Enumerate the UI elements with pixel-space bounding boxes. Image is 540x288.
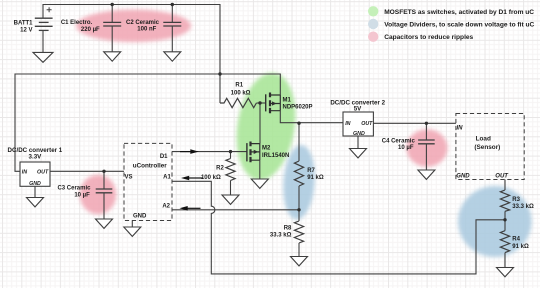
battery BATT1 bbox=[35, 18, 53, 30]
box uController dashed bbox=[124, 143, 172, 220]
wire DCDC2 GND stub bbox=[357, 136, 359, 149]
node R3 R4 junction bbox=[503, 218, 506, 221]
wire C2 top stub bbox=[171, 5, 173, 23]
op transistor M1 NDP6020P p-channel bbox=[266, 93, 281, 114]
resistor R2 bbox=[226, 159, 235, 181]
svg-text:Voltage Dividers, to scale dow: Voltage Dividers, to scale down voltage … bbox=[384, 22, 534, 29]
svg-text:12 V: 12 V bbox=[20, 28, 32, 34]
wire A2 with hop to R7 R8 junction bbox=[172, 209, 299, 211]
capacitor C2 bbox=[163, 22, 181, 26]
ground R8 bbox=[291, 257, 308, 266]
node C2 tap bbox=[171, 3, 174, 6]
svg-text:VS: VS bbox=[125, 175, 133, 181]
wire DCDC2 OUT rail to Load IN bbox=[373, 122, 456, 124]
svg-text:R3: R3 bbox=[512, 197, 520, 203]
svg-text:uController: uController bbox=[133, 163, 167, 170]
wire C4 bottom lead bbox=[425, 144, 427, 170]
wire C1 top stub bbox=[111, 5, 113, 23]
svg-text:220 µF: 220 µF bbox=[81, 27, 100, 33]
svg-text:OUT: OUT bbox=[495, 174, 509, 180]
svg-text:5V: 5V bbox=[354, 106, 362, 113]
wire battery bottom to ground bbox=[42, 31, 44, 53]
transistor M2 IRL1540N n-channel bbox=[247, 142, 260, 163]
svg-text:C2 Ceramic: C2 Ceramic bbox=[126, 20, 160, 26]
node M1 gate junction bbox=[258, 101, 261, 104]
highlight circle: capacitor C4 bbox=[407, 129, 448, 167]
svg-text:IRL1540N: IRL1540N bbox=[262, 153, 289, 159]
svg-text:100 kΩ: 100 kΩ bbox=[201, 175, 221, 181]
arrow D1 signal bbox=[180, 149, 199, 154]
wire A1 long route to R3 R4 junction bbox=[172, 181, 505, 274]
wire vbat left branch to DCDC1 bbox=[15, 74, 220, 171]
capacitor C1 bbox=[103, 22, 121, 26]
wire battery top rail bbox=[43, 5, 220, 75]
svg-text:33.3 kΩ: 33.3 kΩ bbox=[270, 233, 292, 239]
node C3 tap bbox=[102, 170, 105, 173]
svg-text:C1 Electro.: C1 Electro. bbox=[61, 20, 93, 26]
highlight ellipse: capacitors C1 C2 bbox=[76, 10, 191, 42]
svg-text:GND: GND bbox=[133, 214, 147, 220]
svg-text:10 µF: 10 µF bbox=[398, 145, 414, 151]
wire C1 bottom stub bbox=[111, 26, 113, 52]
svg-text:NDP6020P: NDP6020P bbox=[283, 105, 313, 111]
ground C1 bbox=[104, 52, 121, 61]
svg-text:GND: GND bbox=[29, 181, 41, 187]
capacitor C4 bbox=[418, 140, 435, 144]
node R7 top junction bbox=[297, 122, 300, 125]
wire R2 top lead bbox=[230, 152, 232, 159]
wire C4 top lead bbox=[425, 123, 427, 140]
wire gate node down to M2 drain bbox=[259, 103, 261, 144]
ground uController bbox=[124, 227, 141, 236]
legend swatch green bbox=[368, 6, 378, 16]
svg-text:IN: IN bbox=[22, 169, 27, 175]
wire C2 bottom stub bbox=[171, 26, 173, 52]
wire R7 top lead bbox=[298, 123, 300, 161]
ground C4 bbox=[418, 170, 435, 179]
wire R3 bottom to junction to R4 bbox=[504, 211, 506, 230]
svg-text:M2: M2 bbox=[262, 145, 271, 151]
svg-text:R1: R1 bbox=[235, 82, 243, 88]
resistor R3 bbox=[500, 190, 509, 211]
ground DCDC2 bbox=[350, 149, 367, 158]
arrow A2 signal bbox=[180, 206, 201, 211]
ground C2 bbox=[164, 52, 181, 61]
svg-text:R7: R7 bbox=[307, 168, 315, 174]
svg-text:91 kΩ: 91 kΩ bbox=[512, 244, 529, 250]
resistor R4 bbox=[500, 231, 509, 253]
highlight ellipse: divider R7 R8 bbox=[281, 144, 317, 221]
wire uController GND stub bbox=[131, 221, 133, 228]
wire C3 top lead bbox=[103, 171, 105, 189]
wire vbat down to R1 bbox=[219, 74, 221, 103]
highlight ellipse: divider R3 R4 bbox=[458, 186, 532, 257]
capacitor C3 bbox=[96, 189, 113, 193]
svg-text:33.3 kΩ: 33.3 kΩ bbox=[512, 204, 534, 210]
svg-text:A1: A1 bbox=[163, 175, 171, 181]
ground C3 bbox=[96, 219, 113, 228]
wire R2 bottom lead bbox=[230, 181, 232, 196]
svg-text:Load: Load bbox=[476, 135, 491, 142]
svg-text:GND: GND bbox=[456, 174, 470, 180]
wire R8 bottom to ground bbox=[298, 243, 300, 257]
resistor R1 bbox=[220, 98, 256, 107]
svg-text:C4 Ceramic: C4 Ceramic bbox=[382, 139, 416, 145]
node R7 R8 junction bbox=[297, 208, 300, 211]
wire M1 drain to DCDC2 IN bbox=[280, 111, 343, 123]
node C4 tap bbox=[425, 122, 428, 125]
node vbat junction bbox=[218, 72, 221, 75]
svg-text:100 nF: 100 nF bbox=[137, 27, 156, 33]
wire Load OUT to R3 bbox=[504, 180, 506, 191]
legend swatch pink bbox=[368, 32, 378, 42]
box Load Sensor dashed bbox=[456, 114, 524, 180]
svg-text:BATT1: BATT1 bbox=[14, 20, 34, 26]
svg-text:R4: R4 bbox=[512, 236, 520, 242]
wire C3 bottom lead bbox=[103, 193, 105, 219]
resistor R7 bbox=[294, 161, 303, 186]
svg-text:MOSFETS as switches, activated: MOSFETS as switches, activated by D1 fro… bbox=[384, 9, 534, 16]
svg-text:GND: GND bbox=[353, 131, 365, 137]
wire DCDC1 OUT rail to uController VS bbox=[50, 170, 124, 172]
ground M2 bbox=[251, 179, 268, 188]
ground battery bbox=[33, 52, 53, 62]
svg-text:OUT: OUT bbox=[361, 121, 373, 127]
wire vbat right branch to M1 source bbox=[220, 74, 280, 95]
resistor R8 bbox=[294, 221, 303, 243]
ground R2 bbox=[222, 195, 239, 204]
svg-text:IN: IN bbox=[345, 121, 350, 127]
highlight ellipse: MOSFETs M1 M2 bbox=[229, 69, 302, 185]
box DC DC converter 1 bbox=[20, 162, 50, 186]
svg-text:OUT: OUT bbox=[37, 169, 49, 175]
svg-text:3.3V: 3.3V bbox=[29, 154, 43, 161]
legend swatch blue bbox=[368, 19, 378, 29]
svg-text:R8: R8 bbox=[284, 226, 292, 232]
svg-text:10 µF: 10 µF bbox=[74, 193, 90, 199]
svg-text:100 kΩ: 100 kΩ bbox=[231, 90, 251, 96]
svg-text:C3 Ceramic: C3 Ceramic bbox=[57, 186, 91, 192]
wire R4 bottom to ground bbox=[504, 253, 506, 268]
svg-text:M1: M1 bbox=[283, 98, 292, 104]
svg-text:91 kΩ: 91 kΩ bbox=[307, 175, 324, 181]
svg-text:A2: A2 bbox=[162, 204, 170, 210]
highlight circle: capacitor C3 bbox=[80, 175, 117, 215]
svg-text:IN: IN bbox=[457, 125, 464, 131]
node C1 tap bbox=[111, 3, 114, 6]
box DC DC converter 2 bbox=[343, 112, 373, 136]
wire R7 bottom to R8 top bbox=[298, 186, 300, 221]
svg-text:D1: D1 bbox=[160, 154, 168, 160]
ground R4 bbox=[497, 268, 514, 277]
svg-text:Capacitors to reduce ripples: Capacitors to reduce ripples bbox=[384, 34, 473, 41]
wire DCDC1 GND stub bbox=[34, 186, 36, 197]
ground DCDC1 bbox=[27, 198, 44, 207]
arrow A1 signal bbox=[181, 176, 203, 181]
svg-text:R2: R2 bbox=[216, 165, 224, 171]
wire gate node R1 to M1 gate bbox=[256, 102, 265, 104]
wire M2 source to ground bbox=[259, 160, 261, 179]
node R2 tap bbox=[229, 150, 232, 153]
wire D1 to R2 and M2 gate bbox=[172, 151, 247, 153]
svg-text:(Sensor): (Sensor) bbox=[474, 144, 500, 151]
